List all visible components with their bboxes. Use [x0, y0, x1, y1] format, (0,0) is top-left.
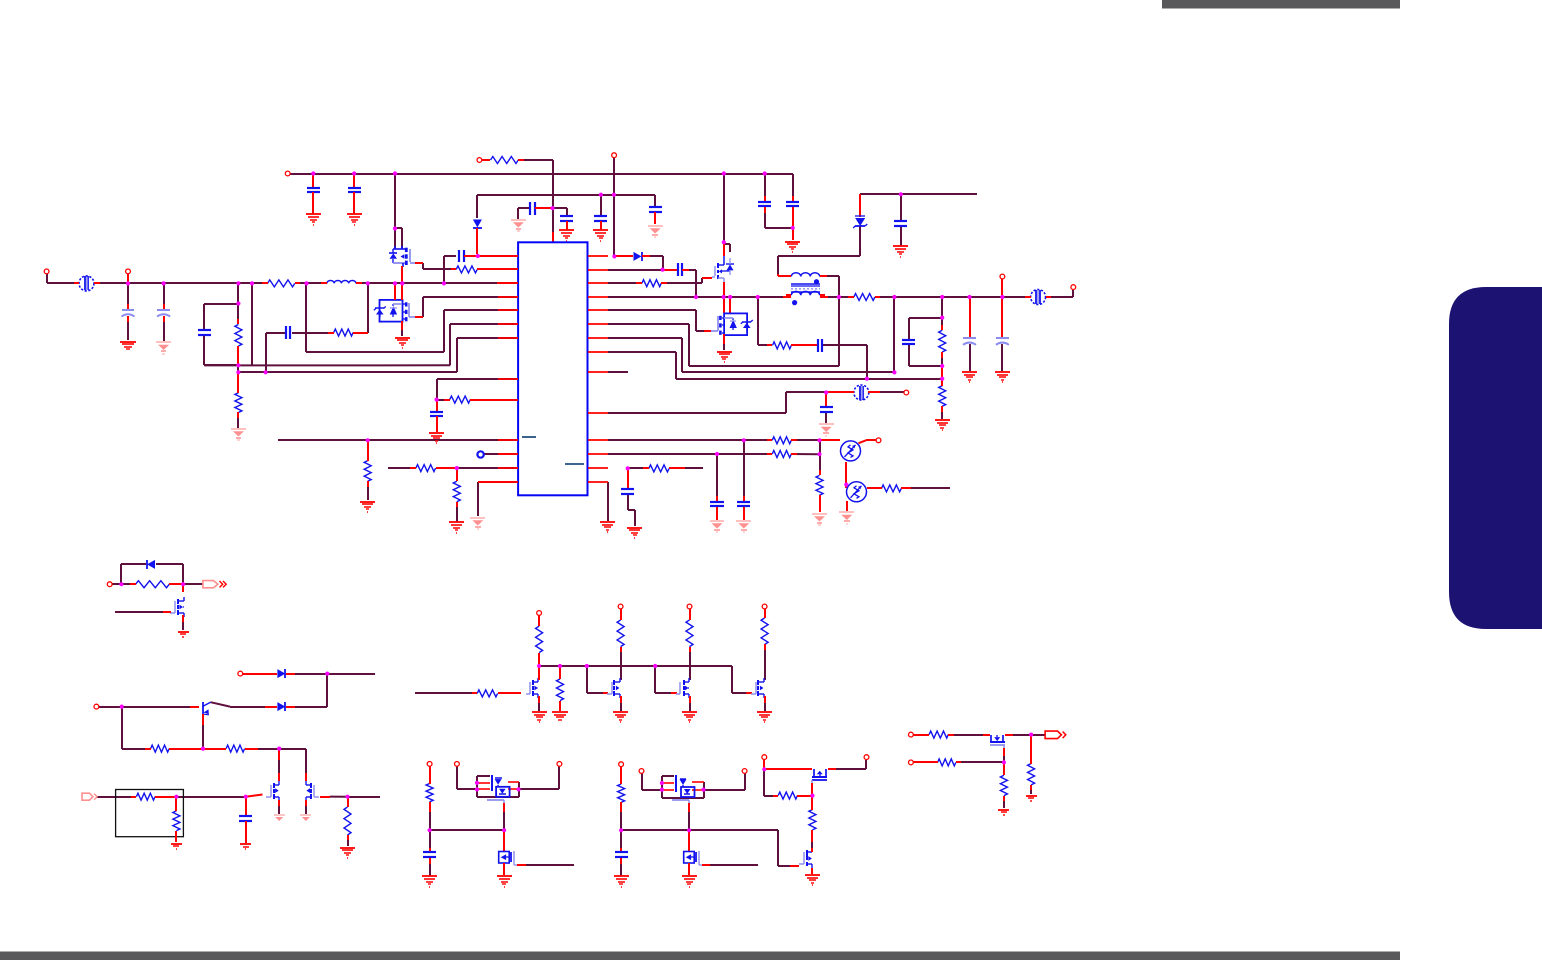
capacitor C3 — [530, 202, 535, 215]
wire D5 out — [286, 706, 295, 708]
wire P5 stub — [127, 274, 129, 283]
filter FL1 — [74, 276, 100, 291]
wire Q14 drain stub — [688, 830, 690, 851]
ground below Q10 — [613, 712, 628, 722]
resistor R37 — [924, 731, 954, 738]
wire C13 left leg — [266, 333, 286, 372]
wire C16 to rail — [689, 270, 696, 297]
ground below C25 — [240, 844, 251, 849]
power ground below Q8 — [300, 815, 311, 821]
wire F2 lead — [97, 796, 136, 798]
wire R20 right lead — [669, 467, 685, 469]
wire S2 out row — [348, 796, 380, 798]
junction input rail r2 — [250, 281, 254, 285]
wire FL3 to P8 — [880, 391, 904, 393]
junction input rail r4 — [366, 281, 370, 285]
capacitor C7 — [758, 202, 771, 206]
wire R35 right lead — [797, 795, 812, 797]
wire C12 branch left — [204, 304, 238, 330]
wire Q12 source2 — [764, 703, 766, 711]
wire RC row r4 — [367, 283, 369, 333]
wire Q16 gate row red — [790, 865, 799, 867]
wire row2 from pin — [608, 269, 663, 271]
wire fuse line red — [826, 391, 854, 393]
U1 left pin 11 — [498, 453, 518, 455]
wire Q14 source stub — [688, 863, 690, 875]
wire Q11 source2 — [689, 703, 691, 711]
wire row1 left — [444, 255, 456, 257]
resistor R6 — [451, 266, 483, 273]
wire Q9 drain stub — [538, 666, 540, 680]
wire P26 lead — [913, 761, 938, 763]
wire QP2 pack left — [661, 776, 663, 798]
connector pin P9 — [876, 438, 881, 443]
junction row440 a — [742, 438, 746, 442]
junction S1 b — [181, 582, 185, 586]
wire R5 to C13 — [292, 332, 334, 334]
filter FL3 — [848, 385, 874, 400]
wire Q7 drain red2 — [278, 773, 280, 781]
transistor Q3 NMOS — [712, 256, 734, 282]
wire C15 top lead — [436, 400, 438, 412]
wire S6 to flag — [1031, 734, 1045, 736]
wire S1 input — [112, 583, 136, 585]
wire P11 lead — [243, 673, 277, 675]
power ground below C22 — [736, 521, 751, 532]
wire QP1 gate drop — [503, 812, 505, 830]
wire row 379 drop — [436, 379, 438, 400]
junction row440 b — [817, 438, 821, 442]
wire Q5 drain stub — [182, 584, 184, 592]
wire QP1 out — [519, 766, 559, 789]
wire C26 top red — [429, 848, 431, 852]
capacitor C16 — [678, 263, 682, 276]
wire T1 secondary left lead — [783, 296, 791, 298]
connector pin P11 — [238, 671, 243, 676]
ground below R15 — [935, 420, 950, 430]
wire node to RT1 — [820, 439, 840, 441]
wire D4 node — [295, 673, 375, 675]
wire Q4 gate lead — [704, 330, 711, 332]
U1 right pin 9 — [588, 371, 608, 373]
resistor R24 — [344, 802, 351, 840]
wire R36 to Q16 — [811, 842, 813, 849]
U1 right pin 11 — [588, 439, 608, 441]
power ground below pin L13 — [470, 518, 485, 529]
polarized capacitor C11 — [157, 310, 170, 317]
wire Q8 out — [330, 796, 348, 798]
junction input rail r3 — [304, 281, 308, 285]
wire Q4 gate to row5 — [608, 310, 704, 331]
wire Q8 src stub — [305, 800, 307, 806]
resistor R27 — [536, 621, 543, 658]
wire P25 lead — [913, 734, 929, 736]
wire S5 row1 red — [764, 768, 812, 770]
wire Q5 gate red — [163, 611, 171, 613]
wire main input rail seg4 — [361, 282, 499, 284]
transistor QP1 dual pack MOSFET — [477, 775, 519, 803]
wire R38 out — [956, 761, 1004, 763]
wire C7 bot red — [764, 207, 766, 213]
wire Q2 bulk stub2 — [401, 330, 403, 336]
net flag F2 — [82, 793, 97, 800]
junction S2 top — [325, 672, 329, 676]
capacitor C21 — [820, 407, 833, 412]
wire Q4 bulk stub2 — [723, 344, 725, 350]
wire T1 secondary right lead — [820, 296, 828, 298]
U1 right pin 14 — [588, 481, 608, 483]
wire R20 out — [685, 467, 703, 469]
connector pin P20 — [619, 762, 624, 767]
filter FL2 — [1025, 290, 1051, 305]
U1 left pin 5 — [498, 309, 518, 311]
U1 left pin 6 — [498, 323, 518, 325]
wire Q15 out — [836, 760, 866, 769]
wire C21 bottom lead — [825, 412, 827, 423]
resistor R29 — [686, 614, 693, 652]
connector pin P6 — [1071, 285, 1076, 290]
wire R40 top lead — [1030, 735, 1032, 764]
junction switch rail i — [1000, 295, 1004, 299]
wire Q6 collector lead — [211, 702, 231, 706]
ground below Q11 — [682, 712, 697, 722]
power ground below R18 — [812, 514, 827, 525]
capacitor C23 — [710, 502, 724, 506]
wire row 440 right — [608, 439, 772, 441]
wire S3 pullup 3 top — [689, 609, 691, 620]
wire R1 to VCC pin — [520, 160, 553, 232]
junction input rail r5 — [442, 281, 446, 285]
wire base red — [190, 706, 199, 708]
wire row5 left — [444, 309, 518, 311]
power ground below RT2 — [839, 512, 854, 524]
wire Q10 source stub — [620, 696, 622, 703]
wire Q13 source stub — [503, 863, 505, 875]
wire T1 primary left stub — [777, 274, 779, 276]
no-connect donut — [477, 451, 483, 457]
wire Q5 gate row — [115, 611, 163, 613]
ground below R39 — [998, 810, 1009, 815]
wire C11 top lead — [163, 283, 165, 304]
resistor R38 — [932, 759, 961, 766]
junction switch rail a — [694, 295, 698, 299]
wire fb line2 — [238, 371, 457, 373]
wire main input rail seg3 — [300, 282, 322, 284]
connector pin P21 — [639, 769, 644, 774]
wire Q9 drain link — [538, 653, 540, 666]
junction S3 bus d — [653, 664, 657, 668]
transistor Q4 dual MOSFET with zener — [711, 313, 753, 335]
wire A pullup top — [429, 766, 431, 784]
wire Q6 emitter drop — [202, 725, 204, 749]
wire Q12 gate drop — [732, 666, 746, 693]
transistor Q11 — [676, 678, 689, 698]
ground below Q12 — [757, 712, 772, 722]
wire R8 bottom lead — [367, 481, 369, 500]
junction B node2 — [687, 828, 691, 832]
wire S3 bus — [539, 665, 732, 667]
wire row 413 right — [608, 392, 826, 413]
resistor R28 — [617, 614, 624, 652]
junction top rail D — [722, 171, 726, 175]
wire S3 pullup 1 top — [538, 615, 540, 626]
capacitor C24 — [621, 489, 634, 494]
wire QP2 pack top — [662, 775, 674, 777]
wire C16 left lead — [663, 269, 678, 271]
capacitor C13 — [286, 326, 290, 339]
wire cap C2 top lead — [353, 174, 355, 188]
wire D2 cathode lead — [642, 255, 650, 257]
wire C27 top lead — [620, 830, 622, 848]
wire P23 stub — [763, 760, 765, 769]
wire Q17 gate drop — [1003, 756, 1005, 762]
wire VCC to C4 — [553, 208, 567, 216]
wire Q10 source2 — [620, 703, 622, 711]
polarized capacitor C10 — [122, 310, 135, 317]
connector pin P22 — [742, 769, 747, 774]
wire U1 top pin stub — [552, 232, 554, 242]
transistor Q16 — [799, 848, 812, 868]
wire R10 bottom lead — [456, 502, 458, 522]
wire T1 primary right lead — [820, 275, 827, 277]
power ground below R4 — [231, 429, 246, 440]
wire Q12 drain link — [764, 644, 766, 680]
wire cap C1 bottom lead — [312, 192, 314, 214]
connector pin P14 — [618, 604, 623, 609]
resistor R15 — [939, 380, 946, 412]
capacitor C8 — [786, 202, 799, 206]
connector pin P8 — [904, 390, 909, 395]
capacitor C17 — [818, 339, 822, 352]
capacitor C22 — [737, 502, 750, 506]
wire row9 right — [608, 352, 942, 379]
U1 right pin 5 — [588, 309, 608, 311]
junction S3 bus b — [558, 664, 562, 668]
wire P18 drop — [457, 766, 477, 789]
wire C6 top lead — [654, 195, 656, 206]
wire C10 top red — [127, 304, 129, 310]
transistor Q9 — [526, 678, 538, 698]
wire Q11 drain link — [689, 647, 691, 680]
U1 right pin 2 — [588, 269, 608, 271]
ground below C20 — [995, 372, 1010, 382]
wire R9 right lead — [436, 467, 457, 469]
resistor R11 — [636, 280, 667, 287]
ground below C2 — [347, 214, 362, 225]
wire main input rail seg2 — [98, 282, 262, 284]
thermistor RT1 — [841, 441, 861, 461]
wire R5 right lead — [357, 332, 368, 334]
wire R7 right lead — [470, 399, 518, 401]
wire R4 bottom lead — [237, 412, 239, 428]
wire row7 left — [457, 337, 518, 339]
wire QP1 gate stub — [503, 803, 505, 812]
wire C21 top lead — [825, 392, 827, 407]
wire Q7 drain stub — [278, 749, 280, 760]
junction input rail c2 — [162, 281, 166, 285]
ground below C24 — [627, 528, 642, 538]
wire C22 top lead — [743, 496, 745, 502]
wire C11 bot red — [163, 316, 165, 322]
connector pin P24 — [864, 755, 869, 760]
connector pin P2 — [477, 158, 482, 163]
wire Q2 drain stub a — [394, 283, 396, 300]
wire R36 top lead — [811, 796, 813, 810]
wire net LDO rail — [477, 194, 655, 196]
wire C3 right lead — [535, 207, 553, 209]
wire D3 bypass — [121, 564, 146, 584]
wire U1 pin L13 stub — [478, 481, 518, 483]
wire QP1 pack top — [477, 775, 490, 777]
wire T1 primary left lead — [778, 275, 791, 277]
power ground below C21 — [819, 424, 834, 436]
junction S1 a — [119, 582, 123, 586]
wire B node out — [689, 830, 790, 866]
resistor R25 — [131, 793, 160, 800]
resistor R22 — [145, 745, 175, 752]
junction RT2 node — [844, 483, 848, 487]
wire C11 top red — [163, 304, 165, 310]
wire rail drop x252 — [251, 283, 253, 365]
wire C26 bottom lead — [429, 864, 431, 876]
wire QP2 gate stub — [688, 803, 690, 812]
wire Q9 source2 — [538, 703, 540, 711]
wire R10 top lead — [456, 468, 458, 481]
wire R15 top lead — [941, 379, 943, 386]
wire C26 top lead — [429, 830, 431, 848]
wire R9 node to pin — [457, 467, 518, 469]
connector pin P15 — [687, 604, 692, 609]
connector pin P25 — [909, 732, 914, 737]
wire Q6 emitter stub — [202, 714, 204, 725]
U1 left pin 2 — [498, 268, 518, 270]
junction VCC node — [551, 206, 555, 210]
wire Q3 source stub — [723, 282, 725, 297]
power ground below C3 — [511, 220, 526, 231]
ground below Q2 — [395, 338, 410, 348]
wire C7 bottom lead — [765, 213, 793, 228]
wire C20 top lead — [1001, 297, 1003, 337]
wire D5 in — [265, 706, 277, 708]
net flag F3 — [1045, 731, 1066, 739]
wire C9 top lead — [900, 194, 902, 220]
junction S2 out — [345, 795, 349, 799]
wire C8 bottom lead — [792, 207, 794, 228]
junction fb node2 — [236, 370, 240, 374]
wire S2 drop — [295, 674, 327, 707]
wire Q7 src stub — [278, 800, 280, 806]
inductor L1 — [321, 280, 362, 283]
U1 left pin 3 — [498, 282, 518, 284]
junction QP2 pack a — [660, 781, 664, 785]
wire Q12 source stub — [764, 696, 766, 703]
U1 right pin 13 — [588, 467, 608, 469]
junction S2 mid — [201, 747, 205, 751]
wire sense resistor branch — [758, 297, 772, 345]
junction switch rail d — [756, 295, 760, 299]
wire Q1 gate to row2 — [423, 263, 451, 269]
wire top rail — [290, 173, 793, 175]
wire S1 to flag — [183, 583, 203, 585]
transistor Q15 — [812, 769, 827, 783]
ground below C15 — [429, 433, 444, 443]
wire Q1 gate lead — [415, 262, 423, 264]
wire Q8 drain red — [305, 773, 307, 781]
ground below C8 — [785, 242, 800, 252]
zener diode ZD1 — [853, 216, 867, 228]
junction S2 gate node — [277, 747, 281, 751]
top gray banner bar — [1162, 0, 1400, 9]
resistor R19 — [876, 485, 907, 492]
wire RT2 right lead — [867, 487, 882, 489]
wire R19 right lead — [901, 487, 911, 489]
wire BJT collector — [230, 706, 265, 708]
resistor R36 — [809, 804, 816, 835]
wire R23 right lead — [245, 748, 258, 750]
wire R17 to node — [791, 453, 819, 455]
junction top rail B — [352, 171, 356, 175]
wire RT2 bottom lead — [846, 501, 848, 511]
wire Q17 gate drop red — [1003, 748, 1005, 756]
junction csense mid — [940, 364, 944, 368]
capacitor C2 — [348, 188, 361, 192]
wire Q17 out dark — [1013, 734, 1031, 736]
wire Q4 bulk stub — [723, 334, 725, 344]
ground below C1 — [306, 214, 321, 225]
wire Q7 gate lead — [246, 795, 263, 797]
transistor Q17 — [990, 735, 1005, 748]
wire Q4 drain stub a — [723, 297, 725, 313]
wire C16 right lead — [682, 269, 689, 271]
wire row468 to R20 — [628, 467, 649, 469]
ground below C26 — [422, 876, 437, 887]
wire Q13 drain stub — [503, 830, 505, 851]
junction QP1 pack b — [475, 787, 479, 791]
wire Q15 gate link — [811, 783, 813, 796]
wire C11 bottom lead — [163, 322, 165, 342]
wire row1 diode lead — [616, 255, 633, 257]
wire QP1 pack left — [476, 776, 478, 797]
junction C14 node — [476, 254, 480, 258]
connector pin P16 — [762, 604, 767, 609]
wire C27 bot red — [620, 858, 622, 864]
wire C27 top red — [620, 848, 622, 852]
resistor R16 — [767, 437, 797, 444]
polarized capacitor C19 — [963, 338, 976, 345]
transistor Q14 — [684, 851, 702, 865]
wire R33 to node — [429, 812, 431, 830]
ground below R32 — [552, 712, 568, 722]
U1 interior marker 2 — [565, 463, 584, 465]
connector pin P19 — [557, 762, 562, 767]
junction S6 div — [1002, 760, 1006, 764]
junction Q1 top — [393, 226, 397, 230]
wire R14 bottom lead — [941, 352, 943, 366]
wire C25 bottom lead — [245, 821, 247, 843]
wire cap C2 bottom lead — [353, 192, 355, 214]
transistor Q13 — [499, 851, 517, 865]
wire R13 right lead — [791, 344, 818, 346]
ground below C19 — [962, 372, 977, 382]
capacitor C18 — [902, 340, 915, 344]
wire row482 drop — [607, 482, 609, 521]
wire Q5 source stub — [182, 615, 184, 622]
wire switch rail — [608, 296, 786, 298]
wire C14 right lead — [464, 255, 478, 257]
wire Q11 source stub — [689, 696, 691, 703]
junction Q3 top — [722, 240, 726, 244]
junction row7 sense — [892, 370, 896, 374]
